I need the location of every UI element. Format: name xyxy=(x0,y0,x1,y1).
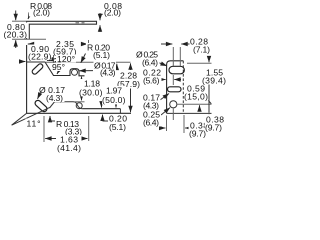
svg-text:(5.1): (5.1) xyxy=(93,50,110,60)
svg-text:(39.4): (39.4) xyxy=(202,76,226,86)
svg-text:(6.4): (6.4) xyxy=(142,58,158,68)
svg-text:(2.0): (2.0) xyxy=(33,8,50,18)
svg-text:1.97: 1.97 xyxy=(106,86,122,96)
svg-text:(22.9): (22.9) xyxy=(28,52,52,62)
svg-text:(4.3): (4.3) xyxy=(100,68,116,78)
svg-text:(6.4): (6.4) xyxy=(143,118,159,128)
svg-text:(4.3): (4.3) xyxy=(46,93,63,103)
svg-text:(5.1): (5.1) xyxy=(109,122,126,132)
svg-text:(20.3): (20.3) xyxy=(4,30,28,40)
svg-text:(41.4): (41.4) xyxy=(57,143,81,153)
svg-text:(15,0): (15,0) xyxy=(184,92,208,102)
svg-text:11°: 11° xyxy=(27,119,41,129)
svg-text:(9.7): (9.7) xyxy=(189,129,206,139)
svg-text:(5.6): (5.6) xyxy=(143,76,160,86)
svg-text:(50.0): (50.0) xyxy=(102,95,126,105)
svg-text:(2.0): (2.0) xyxy=(104,8,121,18)
svg-text:95°: 95° xyxy=(52,62,65,72)
svg-text:(9.7): (9.7) xyxy=(205,123,222,133)
svg-text:(7.1): (7.1) xyxy=(193,45,210,55)
svg-text:(30.0): (30.0) xyxy=(79,88,103,98)
